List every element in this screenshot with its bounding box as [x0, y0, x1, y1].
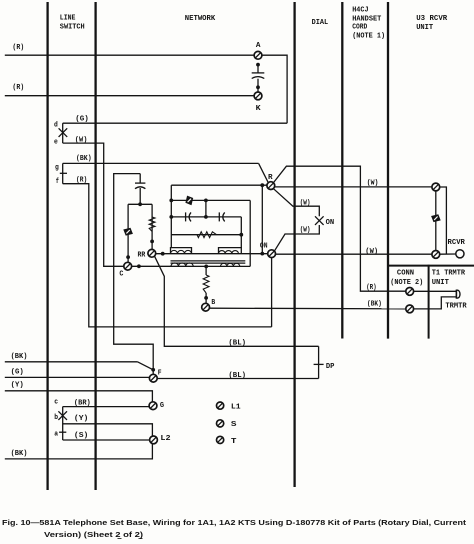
svg-text:(G): (G) [11, 369, 24, 377]
wire ON to RCVR screw 2 (W) [276, 253, 432, 255]
wire (BK) to F diagonal [5, 361, 138, 363]
wire R loop to CONN (R) [274, 166, 406, 291]
junction box right on ON wire [260, 252, 264, 256]
T1 TRMTR UNIT box divider [428, 265, 430, 339]
junction RR right wire [161, 252, 165, 256]
wire R diagonal to ON contact [274, 189, 320, 216]
winding 1 bracket [171, 248, 192, 254]
resistor network left [149, 217, 155, 232]
wire RCVR loop [440, 187, 447, 254]
wire f (R) down to dial pulse net [63, 184, 272, 327]
wire network cap feed down to F [114, 174, 154, 375]
winding 3 [171, 263, 193, 267]
svg-text:L1: L1 [231, 403, 241, 411]
wire e (W) down to C [63, 143, 124, 266]
CONN screw 2 (BK) [406, 305, 414, 313]
svg-text:CORD: CORD [352, 24, 367, 32]
svg-text:RR: RR [138, 252, 146, 260]
core line 1 [171, 260, 246, 262]
wire from A to d-(G) wire [262, 55, 287, 123]
transmitter bottom lead [414, 297, 457, 309]
svg-text:(W): (W) [300, 199, 311, 207]
svg-text:C: C [119, 271, 123, 279]
caption underline sheet 2b [139, 538, 143, 540]
junction cap row mid [204, 215, 208, 219]
wire (Y) to G corner [5, 391, 153, 402]
wire C to bottom winding row [132, 265, 251, 267]
svg-text:NETWORK: NETWORK [185, 15, 216, 23]
wire RR diagonal to DP net [155, 256, 319, 346]
svg-text:(S): (S) [74, 432, 89, 440]
column line (right of LINE SWITCH) [94, 2, 96, 490]
svg-text:ON: ON [326, 219, 335, 227]
capacitor box left [186, 212, 191, 221]
terminal S [217, 420, 224, 427]
contact X d-e [59, 128, 68, 137]
terminal L1 [217, 402, 224, 409]
winding 4 [221, 263, 240, 266]
svg-text:(NOTE 2): (NOTE 2) [390, 279, 423, 287]
svg-text:B: B [211, 299, 215, 307]
svg-text:(R): (R) [12, 44, 24, 52]
diode (varistor) in box [185, 196, 193, 206]
svg-text:(BK): (BK) [11, 450, 28, 458]
wire RR to ON (winding row) [156, 253, 268, 255]
svg-text:g: g [55, 164, 59, 172]
terminal B [202, 303, 210, 311]
svg-text:c: c [54, 398, 58, 406]
RCVR screw 2 [432, 251, 440, 259]
wire box left edge [170, 185, 172, 247]
CONN screw 1 (R) [406, 288, 414, 296]
wire (BK) bottom to L2 [5, 444, 153, 459]
svg-text:UNIT: UNIT [416, 24, 433, 32]
winding 2 [219, 251, 239, 254]
svg-text:(Y): (Y) [11, 382, 24, 390]
contact d-e connector [62, 123, 64, 143]
svg-text:F: F [158, 369, 162, 377]
contact bar a [59, 431, 66, 433]
terminal C [124, 262, 132, 270]
cap row wire [171, 216, 241, 218]
terminal F [149, 374, 157, 382]
DP contact tick [314, 363, 324, 365]
wire mid connector [205, 200, 207, 217]
diode row wire [171, 199, 250, 201]
wire R to RCVR screw (W) [275, 186, 432, 188]
column line (NETWORK/DIAL divider) [293, 2, 295, 487]
svg-text:DP: DP [326, 363, 335, 371]
capacitor box right [219, 212, 224, 221]
resistor branch wire [151, 204, 153, 249]
svg-text:ON: ON [260, 242, 268, 250]
svg-text:RCVR: RCVR [448, 239, 466, 247]
contact X ON (switchhook) [315, 216, 324, 225]
svg-text:f: f [56, 178, 60, 186]
varistor branch wire [127, 204, 129, 262]
svg-text:(NOTE 1): (NOTE 1) [352, 33, 385, 41]
svg-text:d: d [54, 122, 58, 130]
terminal T [217, 436, 224, 443]
wire box top to R [171, 184, 267, 186]
wire g (BK) to R diagonal [63, 162, 259, 164]
svg-text:UNIT: UNIT [432, 279, 450, 287]
svg-text:(G): (G) [75, 116, 89, 124]
terminal L2 [150, 436, 158, 444]
svg-text:(BL): (BL) [228, 372, 246, 380]
junction above C [126, 255, 130, 259]
transmitter top lead [414, 290, 457, 292]
resistor in box [197, 232, 217, 238]
terminal RR [148, 249, 156, 257]
svg-text:A: A [256, 42, 261, 50]
receiver earpiece [456, 250, 464, 258]
svg-text:(BL): (BL) [228, 339, 246, 347]
varistor network left [123, 228, 133, 236]
junction resistor row right [239, 233, 243, 237]
resistor row wire [171, 234, 241, 236]
winding 2 bracket [219, 248, 242, 254]
wire cap row down [240, 217, 242, 248]
terminal G [149, 402, 157, 410]
junction box top right [260, 183, 264, 187]
wire branch row [128, 203, 152, 205]
svg-text:R: R [268, 174, 273, 182]
svg-text:Version) (Sheet 2 of 2): Version) (Sheet 2 of 2) [44, 530, 144, 539]
junction cap row left [169, 215, 173, 219]
svg-text:T: T [231, 438, 237, 446]
terminal ON [268, 250, 276, 258]
contact X b [58, 411, 67, 420]
wire b (Y) to L2 corner [63, 424, 153, 436]
svg-text:(Y): (Y) [74, 415, 89, 423]
wire (R) to terminal A [5, 54, 254, 56]
caption underline sheet 2a [118, 538, 122, 540]
RCVR varistor wire [435, 191, 437, 251]
junction above F [151, 368, 155, 372]
transmitter element [456, 290, 460, 298]
svg-text:U3 RCVR: U3 RCVR [416, 15, 447, 23]
contact connector c-b-a [62, 407, 64, 440]
DP bracket vertical [318, 346, 320, 378]
svg-text:(W): (W) [300, 226, 311, 234]
svg-text:T1 TRMTR: T1 TRMTR [432, 270, 466, 278]
capacitor network top-left [139, 174, 141, 184]
resistor to B [205, 266, 207, 275]
junction right of C [137, 264, 141, 268]
svg-text:e: e [54, 139, 58, 147]
junction below A [256, 63, 260, 67]
wire (R) to terminal K [5, 95, 254, 97]
wire diode row down right [249, 200, 251, 266]
svg-text:HANDSET: HANDSET [352, 15, 381, 23]
column line (left of LINE SWITCH) [46, 2, 48, 490]
svg-text:TRMTR: TRMTR [445, 302, 467, 310]
wire ON contact to terminal ON [274, 225, 319, 251]
wire screw2 to receiver [440, 253, 456, 255]
contact g-f connector [62, 163, 64, 183]
svg-text:G: G [160, 402, 165, 410]
svg-text:(R): (R) [366, 284, 376, 292]
capacitor A-K [257, 65, 259, 73]
wire B to CONN (BK) screw [210, 307, 406, 310]
junction diode row left [169, 199, 173, 203]
svg-text:(R): (R) [12, 84, 24, 92]
svg-text:(BK): (BK) [11, 353, 28, 361]
terminal K [254, 92, 262, 100]
svg-text:DIAL: DIAL [312, 19, 329, 27]
wire DP to F [157, 378, 318, 380]
junction above K [256, 85, 260, 89]
svg-text:K: K [256, 105, 261, 113]
wire c (BR) to G [63, 406, 149, 408]
wire ON down to junction [271, 258, 273, 327]
svg-text:CONN: CONN [397, 270, 415, 278]
svg-text:(W): (W) [365, 248, 378, 256]
svg-text:H4CJ: H4CJ [352, 6, 368, 14]
junction cap bottom [138, 202, 142, 206]
svg-text:(BK): (BK) [367, 301, 382, 309]
winding 1 [171, 250, 192, 253]
svg-text:a: a [54, 431, 58, 439]
svg-text:b: b [54, 414, 58, 422]
column line (DIAL/H4CJ divider) [341, 2, 343, 339]
core line 2 [171, 262, 246, 264]
RCVR screw 1 [432, 183, 440, 191]
svg-text:SWITCH: SWITCH [60, 24, 85, 32]
svg-text:(BK): (BK) [76, 155, 92, 163]
svg-text:S: S [231, 421, 237, 429]
column line (H4CJ/U3 divider) [387, 2, 389, 339]
wire (G) to F [5, 376, 150, 378]
terminal R [267, 182, 275, 190]
svg-text:(W): (W) [367, 179, 379, 187]
wire d (G) to A corner [63, 122, 287, 124]
contact bar g-f [60, 172, 67, 174]
junction diode row mid [204, 199, 208, 203]
junction above RR [150, 240, 154, 244]
svg-text:L2: L2 [160, 435, 171, 443]
wire a (S) to L2 [63, 439, 150, 441]
wire box right edge to ON wire [261, 185, 263, 253]
CONN / T1 TRMTR UNIT box top border [387, 265, 474, 267]
svg-text:Fig. 10—581A Telephone Set Bas: Fig. 10—581A Telephone Set Base, Wiring … [2, 518, 467, 527]
junction above B [204, 296, 208, 300]
svg-text:LINE: LINE [60, 14, 76, 22]
junction bottom winding mid [204, 265, 208, 269]
varistor RCVR [431, 214, 441, 222]
terminal A [254, 51, 262, 59]
